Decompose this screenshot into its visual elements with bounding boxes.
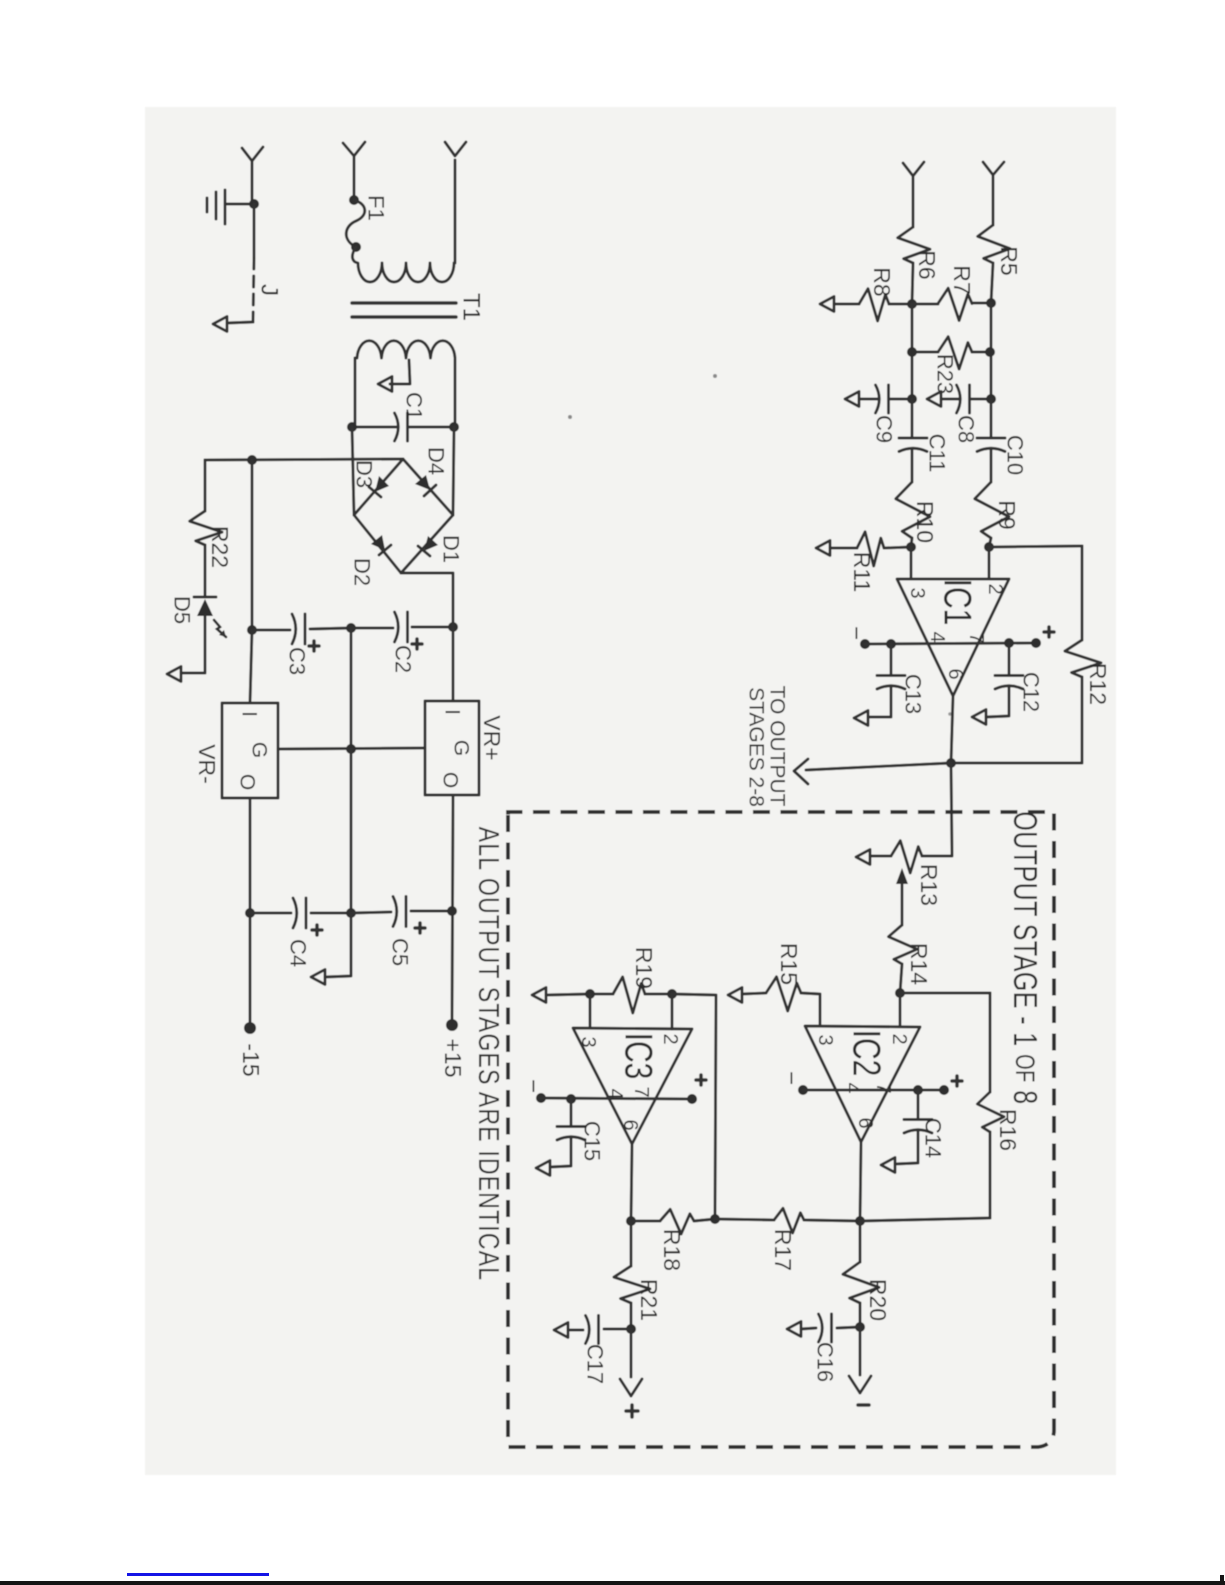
svg-text:R23: R23 bbox=[933, 354, 958, 394]
resistor R16 bbox=[977, 993, 1004, 1218]
label VR+ bbox=[479, 715, 505, 760]
node: C4/C5 center bbox=[346, 908, 356, 918]
wire: IC1 output down into output stage bbox=[951, 763, 952, 855]
label J bbox=[256, 284, 283, 296]
resistor R20 bbox=[843, 1221, 879, 1327]
label R12 bbox=[1085, 663, 1111, 705]
svg-text:−: − bbox=[520, 1079, 547, 1093]
node: R23 right bbox=[985, 347, 995, 357]
svg-text:R11: R11 bbox=[849, 552, 875, 593]
svg-text:7: 7 bbox=[872, 1082, 894, 1093]
resistor R10 bbox=[896, 482, 930, 547]
svg-text:C8: C8 bbox=[954, 415, 979, 443]
svg-text:C13: C13 bbox=[901, 674, 926, 714]
wire: VR+ output rail bbox=[452, 795, 453, 1025]
node: IC2 output bus bbox=[855, 1216, 865, 1226]
svg-text:D5: D5 bbox=[170, 596, 195, 624]
svg-text:3: 3 bbox=[814, 1034, 836, 1045]
node: R8/R7 left bbox=[907, 299, 917, 309]
transformer T1 core bbox=[352, 303, 456, 317]
terminal: input signal A bbox=[903, 162, 924, 227]
label +15 bbox=[440, 1038, 466, 1077]
bridge rectifier diamond outline bbox=[354, 459, 453, 573]
svg-text:R9: R9 bbox=[994, 500, 1020, 529]
footnote link underline (blue) bbox=[127, 1573, 269, 1576]
capacitor C16 with ground arrow bbox=[787, 1314, 860, 1342]
label R19 bbox=[631, 947, 657, 989]
svg-text:6: 6 bbox=[619, 1119, 641, 1130]
resistor R11 with ground arrow bbox=[816, 532, 911, 566]
wire: IC3 pin 3 lead bbox=[589, 994, 592, 1028]
node: center rail top bbox=[346, 623, 356, 633]
node: -15 terminal bbox=[244, 1022, 256, 1034]
label R6 bbox=[914, 250, 940, 279]
label D5 bbox=[170, 596, 195, 624]
svg-text:VR-: VR- bbox=[194, 744, 220, 784]
wire: minus rail to VR- input bbox=[250, 630, 252, 703]
ground (earth symbol) bbox=[207, 190, 254, 224]
svg-text:3: 3 bbox=[906, 587, 928, 598]
svg-text:−: − bbox=[843, 626, 870, 640]
node: C5 right bbox=[447, 906, 457, 916]
LED D5 bbox=[167, 597, 226, 682]
label R10 bbox=[912, 501, 938, 543]
IC3 negative supply pin 4 bbox=[520, 1079, 693, 1103]
diode D2 (bottom-left arm) bbox=[371, 535, 391, 555]
node: C3 bus left bbox=[247, 625, 257, 635]
label R20 bbox=[865, 1279, 891, 1321]
svg-text:R5: R5 bbox=[996, 246, 1022, 275]
svg-text:2: 2 bbox=[888, 1033, 910, 1044]
transformer T1 primary winding bbox=[352, 160, 455, 282]
label C9 bbox=[872, 415, 897, 443]
wire: center rail to ground bus bbox=[350, 628, 353, 749]
svg-text:+15: +15 bbox=[440, 1038, 466, 1077]
svg-text:R19: R19 bbox=[631, 947, 657, 989]
node: secondary right / C1 bbox=[449, 422, 459, 432]
svg-text:IC3: IC3 bbox=[617, 1033, 660, 1080]
node: IC1 pin3 input bbox=[906, 542, 916, 552]
capacitor C2 bbox=[351, 612, 453, 649]
resistor R15 with ground arrow bbox=[728, 977, 820, 1026]
svg-text:R15: R15 bbox=[776, 943, 802, 985]
node: C4 left bbox=[245, 908, 255, 918]
svg-text:2: 2 bbox=[659, 1033, 681, 1044]
dashed box: output stage bbox=[508, 812, 1054, 1447]
wire: pin 3 lead bbox=[910, 547, 913, 579]
svg-text:R22: R22 bbox=[207, 526, 233, 568]
svg-text:G: G bbox=[450, 740, 473, 756]
capacitor C3 bbox=[252, 614, 351, 651]
wire: left rail R6 node to C9 bus bbox=[911, 304, 914, 399]
node: ground bus center bbox=[346, 744, 356, 754]
label R15 bbox=[776, 943, 802, 985]
label VR- bbox=[194, 744, 220, 784]
wire: secondary center tap to ground arrow bbox=[378, 360, 410, 392]
svg-text:I: I bbox=[238, 711, 261, 717]
terminal: input signal B bbox=[983, 162, 1004, 225]
label R18 bbox=[659, 1229, 685, 1271]
svg-text:C9: C9 bbox=[872, 415, 897, 443]
svg-text:TO OUTPUT: TO OUTPUT bbox=[766, 686, 789, 807]
IC2 negative supply pin 4 bbox=[778, 1071, 945, 1095]
svg-text:4: 4 bbox=[841, 1082, 863, 1093]
svg-text:OUTPUT STAGE - 1 OF 8: OUTPUT STAGE - 1 OF 8 bbox=[1006, 811, 1044, 1104]
wire: bridge minus output to left bbox=[205, 459, 403, 460]
label D3 bbox=[352, 460, 377, 488]
svg-text:R6: R6 bbox=[914, 250, 940, 279]
capacitor C13 with ground arrow bbox=[854, 644, 905, 726]
resistor R8 with ground arrow bbox=[820, 289, 912, 321]
label R14 bbox=[906, 943, 932, 985]
op-amp IC3 bbox=[573, 1028, 692, 1144]
label R11 bbox=[849, 552, 875, 593]
svg-text:G: G bbox=[248, 742, 271, 758]
resistor R23 bbox=[912, 337, 990, 369]
label R13 bbox=[916, 864, 942, 906]
node: IC1 output bus bbox=[946, 758, 956, 768]
wire: pin2 node to R12 top bbox=[989, 546, 1082, 547]
output terminal plus bbox=[620, 1329, 642, 1417]
svg-text:R20: R20 bbox=[865, 1279, 891, 1321]
resistor R12 (feedback) bbox=[951, 546, 1101, 763]
resistor R6 bbox=[898, 227, 930, 304]
wire: IC1 output pin 6 down bbox=[951, 696, 953, 763]
wire: IC3 output pin 6 down bbox=[631, 1144, 632, 1221]
transformer T1 secondary winding bbox=[355, 341, 455, 427]
svg-text:ALL OUTPUT STAGES ARE IDENTICA: ALL OUTPUT STAGES ARE IDENTICAL bbox=[472, 827, 505, 1281]
wire: left rail C1 to bridge AC node bbox=[352, 427, 354, 515]
capacitor C14 with ground arrow bbox=[881, 1090, 932, 1173]
wire: bus to R16 bottom bbox=[860, 1218, 990, 1221]
label ALL OUTPUT STAGES ARE IDENTICAL bbox=[472, 827, 505, 1281]
svg-text:R7: R7 bbox=[949, 265, 975, 294]
svg-text:R8: R8 bbox=[869, 267, 895, 296]
capacitor C17 with ground arrow bbox=[554, 1316, 631, 1344]
svg-text:C5: C5 bbox=[388, 938, 413, 966]
terminal: AC line input (return leg) bbox=[445, 142, 466, 156]
svg-text:C1: C1 bbox=[402, 392, 427, 420]
svg-text:O: O bbox=[439, 772, 462, 788]
svg-text:C3: C3 bbox=[285, 647, 310, 675]
svg-text:C10: C10 bbox=[1003, 435, 1028, 475]
wire: right rail C1 to bridge AC node bbox=[453, 427, 454, 515]
svg-text:R21: R21 bbox=[636, 1279, 662, 1321]
capacitor C8 with ground arrow bbox=[927, 385, 991, 413]
label C5 bbox=[388, 938, 413, 966]
label R21 bbox=[636, 1279, 662, 1321]
wire: minus rail down to C3 bus bbox=[251, 460, 254, 630]
resistor R5 bbox=[978, 225, 1010, 303]
label C12 bbox=[1019, 672, 1044, 712]
svg-text:R17: R17 bbox=[770, 1229, 796, 1271]
label C2 bbox=[391, 645, 416, 673]
label C14 bbox=[921, 1118, 946, 1158]
label R9 bbox=[994, 500, 1020, 529]
resistor R22 bbox=[190, 460, 222, 597]
svg-text:4: 4 bbox=[926, 631, 948, 642]
wire: pin 2 lead bbox=[988, 547, 991, 579]
diode D3 (top-left arm) bbox=[369, 476, 389, 497]
label C1 bbox=[402, 392, 427, 420]
svg-text:R12: R12 bbox=[1085, 663, 1111, 705]
svg-text:3: 3 bbox=[577, 1036, 599, 1047]
svg-text:C17: C17 bbox=[583, 1344, 608, 1384]
wire: regulator ground bus bbox=[278, 748, 425, 749]
node: R23 left bbox=[907, 347, 917, 357]
IC1 negative supply pin 4 bbox=[843, 626, 1037, 649]
svg-text:IC2: IC2 bbox=[845, 1030, 888, 1077]
resistor R17 bbox=[715, 1208, 860, 1233]
resistor R7 bbox=[912, 288, 991, 320]
svg-text:R18: R18 bbox=[659, 1229, 685, 1271]
svg-text:C14: C14 bbox=[921, 1118, 946, 1158]
svg-text:IC1: IC1 bbox=[936, 579, 979, 626]
label D4 bbox=[424, 447, 449, 475]
svg-text:-15: -15 bbox=[238, 1043, 264, 1076]
wire: IC3 pin 2 lead bbox=[671, 994, 674, 1029]
wire: VR- output rail bbox=[249, 798, 252, 1028]
svg-text:F1: F1 bbox=[364, 195, 389, 221]
svg-text:C12: C12 bbox=[1019, 672, 1044, 712]
label TO OUTPUT STAGES 2-8 bbox=[745, 686, 789, 807]
resistor R9 bbox=[975, 482, 1009, 547]
op-amp IC2 bbox=[805, 1026, 920, 1142]
wire: bridge plus output to VR+ input rail bbox=[401, 573, 453, 701]
node: IC3 pin2 / feedback bbox=[667, 989, 677, 999]
IC1 positive supply pin 7 bbox=[1004, 627, 1054, 648]
svg-text:C15: C15 bbox=[580, 1121, 605, 1161]
label C13 bbox=[901, 674, 926, 714]
svg-text:6: 6 bbox=[944, 668, 966, 679]
label R8 bbox=[869, 267, 895, 296]
svg-text:D4: D4 bbox=[424, 447, 449, 475]
wire: IC2 pin 2 lead bbox=[899, 993, 902, 1026]
svg-text:7: 7 bbox=[630, 1086, 652, 1097]
label C17 bbox=[583, 1344, 608, 1384]
wire: feedback node to R16 bbox=[900, 992, 990, 995]
node: ground junction bbox=[249, 199, 259, 209]
op-amp IC1 bbox=[897, 579, 1009, 696]
label C8 bbox=[954, 415, 979, 443]
node: C9 right bbox=[907, 394, 917, 404]
label C3 bbox=[285, 647, 310, 675]
node: +15 terminal bbox=[446, 1019, 458, 1031]
svg-text:D3: D3 bbox=[352, 460, 377, 488]
IC3 positive supply pin 7 bbox=[566, 1075, 706, 1104]
diode D4 (top-right arm) bbox=[415, 475, 436, 496]
label T1 bbox=[458, 293, 485, 321]
node: R18/R17 junction bbox=[710, 1214, 720, 1224]
svg-text:I: I bbox=[441, 709, 464, 715]
svg-text:R10: R10 bbox=[912, 501, 938, 543]
svg-text:R16: R16 bbox=[995, 1109, 1021, 1151]
capacitor C11 (left rail series) bbox=[899, 399, 927, 482]
svg-text:D2: D2 bbox=[350, 558, 375, 586]
label R16 bbox=[995, 1109, 1021, 1151]
label R22 bbox=[207, 526, 233, 568]
label C4 bbox=[286, 939, 311, 967]
node: IC3 output bus bbox=[626, 1216, 636, 1226]
capacitor C12 with ground arrow bbox=[972, 643, 1023, 725]
node: R7 right bbox=[986, 298, 996, 308]
voltage regulator VR- bbox=[222, 703, 278, 798]
label R7 bbox=[949, 265, 975, 294]
svg-text:C16: C16 bbox=[813, 1342, 838, 1382]
label OUTPUT STAGE - 1 OF 8 bbox=[1006, 811, 1044, 1104]
page bottom rule bbox=[0, 1581, 1225, 1585]
label -15 bbox=[238, 1043, 264, 1076]
svg-text:VR+: VR+ bbox=[479, 715, 505, 760]
wire: center rail to ground arrow bbox=[311, 913, 351, 985]
node: secondary left / C1 bbox=[347, 422, 357, 432]
label F1 bbox=[364, 195, 389, 221]
label R17 bbox=[770, 1229, 796, 1271]
terminal: AC line input (hot leg) bbox=[343, 142, 365, 200]
node: R21/C17 junction bbox=[626, 1324, 636, 1334]
node: C8 right bbox=[986, 394, 996, 404]
svg-text:C2: C2 bbox=[391, 645, 416, 673]
node: C2 right / plus rail bbox=[448, 622, 458, 632]
svg-text:R14: R14 bbox=[906, 943, 932, 985]
resistor R18 bbox=[631, 1209, 715, 1234]
svg-text:STAGES 2-8: STAGES 2-8 bbox=[745, 687, 768, 807]
wire: ground lead down to switch J bbox=[253, 204, 256, 258]
node: IC1 pin2 input bbox=[984, 542, 994, 552]
capacitor C5 bbox=[351, 897, 452, 934]
label R5 bbox=[996, 246, 1022, 275]
label C15 bbox=[580, 1121, 605, 1161]
label C10 bbox=[1003, 435, 1028, 475]
resistor R19 with ground arrow bbox=[532, 977, 672, 1013]
switch J (dashed) bbox=[213, 258, 254, 332]
capacitor C1 across secondary bbox=[352, 413, 454, 441]
label D2 bbox=[350, 558, 375, 586]
wire: right rail R5 node to C8 bus bbox=[990, 303, 993, 399]
capacitor C9 with ground arrow bbox=[845, 385, 912, 413]
svg-text:T1: T1 bbox=[458, 293, 485, 321]
node: R22 tee on minus wire bbox=[247, 455, 257, 465]
scanned schematic paper background bbox=[145, 107, 1116, 1475]
terminal: AC line input (ground leg) bbox=[242, 147, 263, 204]
IC2 positive supply pin 7 bbox=[913, 1076, 962, 1095]
resistor R13 with ground arrow bbox=[856, 841, 952, 873]
capacitor C4 bbox=[250, 898, 351, 935]
svg-text:J: J bbox=[256, 284, 283, 296]
svg-text:D1: D1 bbox=[439, 535, 464, 563]
wire/arrow: to output stages 2-8 bbox=[794, 759, 951, 784]
svg-text:6: 6 bbox=[854, 1117, 876, 1128]
voltage regulator VR+ bbox=[425, 701, 479, 795]
node: IC3 pin3 bbox=[585, 989, 595, 999]
label C11 bbox=[925, 434, 950, 473]
svg-text:R13: R13 bbox=[916, 864, 942, 906]
wire: feedback node to R17/R18 junction bbox=[672, 994, 716, 1218]
node: R20/C16 junction bbox=[855, 1322, 865, 1332]
output terminal minus bbox=[849, 1327, 871, 1405]
capacitor C10 (right rail series) bbox=[977, 399, 1005, 482]
svg-text:O: O bbox=[236, 774, 259, 790]
resistor R21 bbox=[614, 1221, 650, 1329]
wire: center ground rail down bbox=[350, 749, 353, 913]
resistor R14 with input arrow bbox=[889, 868, 918, 993]
label D1 bbox=[439, 535, 464, 563]
svg-text:2: 2 bbox=[984, 583, 1006, 594]
svg-text:C4: C4 bbox=[286, 939, 311, 967]
svg-text:−: − bbox=[778, 1071, 805, 1085]
svg-text:C11: C11 bbox=[925, 434, 950, 473]
label C16 bbox=[813, 1342, 838, 1382]
capacitor C15 with ground arrow bbox=[536, 1099, 585, 1176]
fuse F1 bbox=[346, 195, 365, 252]
node: IC2 pin2 / feedback bbox=[895, 988, 905, 998]
label R23 bbox=[933, 354, 958, 394]
diode D1 (bottom-right arm) bbox=[418, 536, 438, 556]
wire: IC2 output pin 6 down bbox=[860, 1142, 861, 1221]
